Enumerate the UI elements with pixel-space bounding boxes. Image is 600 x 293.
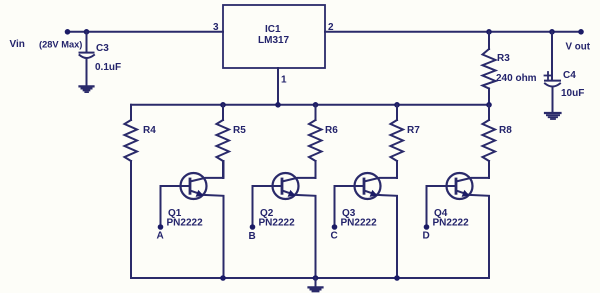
capacitor C3 — [80, 32, 95, 86]
junction C3 tap on top rail — [84, 29, 90, 35]
svg-text:0.1uF: 0.1uF — [95, 62, 121, 73]
node V out terminal dot — [578, 29, 584, 35]
svg-text:PN2222: PN2222 — [433, 218, 470, 229]
junction R3 top — [486, 29, 492, 35]
junction Q1 emitter / bottom rail — [220, 275, 226, 281]
transistor Q3 — [335, 161, 398, 278]
svg-text:D: D — [423, 231, 430, 242]
resistor R5 — [217, 105, 230, 178]
svg-text:C3: C3 — [96, 43, 109, 54]
resistor R6 — [309, 105, 322, 178]
junction R8 top / R3 bottom — [486, 102, 492, 108]
node B dot — [250, 224, 256, 230]
svg-text:R8: R8 — [499, 125, 512, 136]
svg-text:PN2222: PN2222 — [341, 218, 378, 229]
resistor R7 — [391, 105, 404, 178]
wire Q3 base to node C — [334, 186, 336, 226]
svg-text:V out: V out — [566, 42, 591, 53]
junction R6 top — [313, 102, 319, 108]
svg-text:240 ohm: 240 ohm — [496, 73, 537, 84]
node C dot — [332, 224, 338, 230]
resistor R3 — [483, 32, 496, 105]
wire mid rail — [131, 104, 489, 106]
junction Q2 emitter / bottom rail — [313, 275, 319, 281]
svg-text:10uF: 10uF — [561, 88, 584, 99]
transistor Q2 — [253, 161, 316, 278]
junction C4 tap — [549, 29, 555, 35]
svg-text:R5: R5 — [233, 125, 246, 136]
node D dot — [424, 224, 430, 230]
transistor Q1 — [161, 161, 224, 278]
regulator IC1 LM317 — [223, 5, 325, 68]
junction R7 top — [394, 102, 400, 108]
ground below bottom rail — [309, 278, 323, 291]
wire Q4 base to node D — [426, 186, 428, 226]
svg-text:A: A — [157, 231, 164, 242]
junction Q3 emitter / bottom rail — [394, 275, 400, 281]
wire IC pin 1 down to mid rail — [277, 68, 279, 105]
wire IC pin 2 to V out — [325, 31, 581, 33]
node Vin terminal dot — [65, 29, 71, 35]
wire Q1 base to node A — [160, 186, 162, 226]
svg-text:R4: R4 — [143, 125, 156, 136]
wire Q2 base to node B — [252, 186, 254, 226]
svg-text:PN2222: PN2222 — [167, 218, 204, 229]
svg-text:B: B — [249, 231, 256, 242]
svg-text:PN2222: PN2222 — [259, 218, 296, 229]
svg-text:R6: R6 — [325, 125, 338, 136]
capacitor C4 — [545, 32, 560, 113]
svg-text:R7: R7 — [407, 125, 420, 136]
resistor R8 — [483, 105, 496, 178]
svg-text:IC1: IC1 — [265, 24, 281, 35]
junction R5 top — [220, 102, 226, 108]
resistor R4 — [125, 105, 138, 278]
transistor Q4 — [427, 161, 490, 278]
svg-text:Vin(28V Max): Vin(28V Max) — [10, 39, 83, 50]
plus polarity mark of C4 — [545, 72, 552, 79]
junction pin1 / mid rail — [275, 102, 281, 108]
svg-text:C4: C4 — [563, 70, 576, 81]
svg-text:R3: R3 — [497, 53, 510, 64]
svg-text:1: 1 — [281, 75, 287, 86]
wire top rail Vin to IC pin 3 — [68, 31, 224, 33]
svg-text:LM317: LM317 — [258, 35, 290, 46]
svg-text:3: 3 — [213, 22, 219, 33]
wire bottom rail — [131, 277, 489, 279]
ground below C4 — [545, 113, 561, 119]
ground below C3 — [80, 86, 94, 92]
svg-text:C: C — [331, 231, 338, 242]
node A dot — [158, 224, 164, 230]
